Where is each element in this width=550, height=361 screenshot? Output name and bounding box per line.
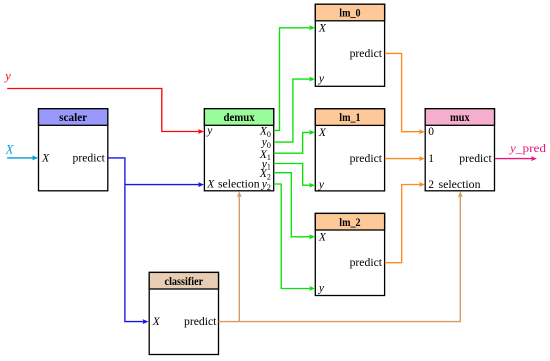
svg-text:y: y [206, 125, 213, 137]
svg-text:X: X [318, 127, 327, 139]
svg-text:predict: predict [350, 48, 383, 60]
wire demux.y_0 -> lm_0.y [274, 79, 312, 142]
svg-text:demux: demux [223, 112, 254, 124]
svg-text:classifier: classifier [165, 276, 204, 288]
block lm_0 (body, header, title) [315, 4, 384, 86]
wire classifier.predict branch -> mux.selection [239, 195, 460, 322]
wire classifier.predict -> demux.selection [219, 195, 240, 322]
svg-text:y_pred: y_pred [509, 141, 546, 155]
wire demux.y_2 -> lm_2.y [274, 184, 312, 289]
wire demux.X_1 -> lm_1.X [274, 132, 312, 153]
svg-text:0: 0 [428, 126, 434, 138]
svg-text:X: X [41, 152, 50, 164]
svg-text:mux: mux [450, 112, 470, 124]
svg-text:selection: selection [439, 179, 481, 191]
wire lm_2.predict -> mux.2 [385, 185, 422, 263]
wire scaler.predict -> classifier.X [108, 158, 145, 322]
wire X input -> scaler.X [7, 157, 34, 159]
svg-text:X: X [152, 316, 161, 328]
svg-text:predict: predict [350, 257, 383, 269]
svg-text:predict: predict [184, 316, 217, 328]
svg-text:y: y [318, 73, 325, 85]
svg-text:selection: selection [218, 179, 260, 191]
svg-text:y: y [318, 282, 325, 294]
wire scaler.predict branch -> demux.X [125, 184, 201, 186]
wire lm_1.predict -> mux.1 [385, 158, 422, 160]
svg-text:predict: predict [459, 153, 492, 165]
svg-text:lm_2: lm_2 [339, 217, 361, 229]
block lm_2 (body, header, title) [315, 213, 384, 295]
wire demux.y_1 -> lm_1.y [274, 164, 312, 186]
wire y input -> demux.y [7, 89, 200, 132]
wire demux.X_0 -> lm_0.X [274, 28, 312, 131]
block scaler (body, header, title) [39, 109, 108, 191]
svg-text:X: X [5, 142, 15, 156]
wire lm_0.predict -> mux.0 [385, 53, 422, 131]
svg-text:X: X [318, 22, 327, 34]
svg-text:predict: predict [73, 152, 106, 164]
wire mux.predict -> y_pred output [495, 158, 534, 160]
svg-text:scaler: scaler [59, 112, 87, 124]
svg-text:lm_1: lm_1 [339, 112, 361, 124]
block demux (body, header, title) [204, 109, 273, 191]
svg-text:predict: predict [350, 153, 383, 165]
svg-text:y: y [3, 69, 11, 83]
block mux (body, header, title) [425, 109, 494, 191]
svg-text:y: y [318, 179, 325, 191]
svg-text:2: 2 [428, 179, 434, 191]
block classifier (body, header, title) [149, 272, 218, 354]
svg-text:1: 1 [428, 153, 434, 165]
svg-text:X: X [318, 231, 327, 243]
wire demux.X_2 -> lm_2.X [274, 173, 312, 237]
block lm_1 (body, header, title) [315, 109, 384, 191]
svg-text:lm_0: lm_0 [339, 8, 361, 20]
svg-text:X: X [206, 179, 215, 191]
